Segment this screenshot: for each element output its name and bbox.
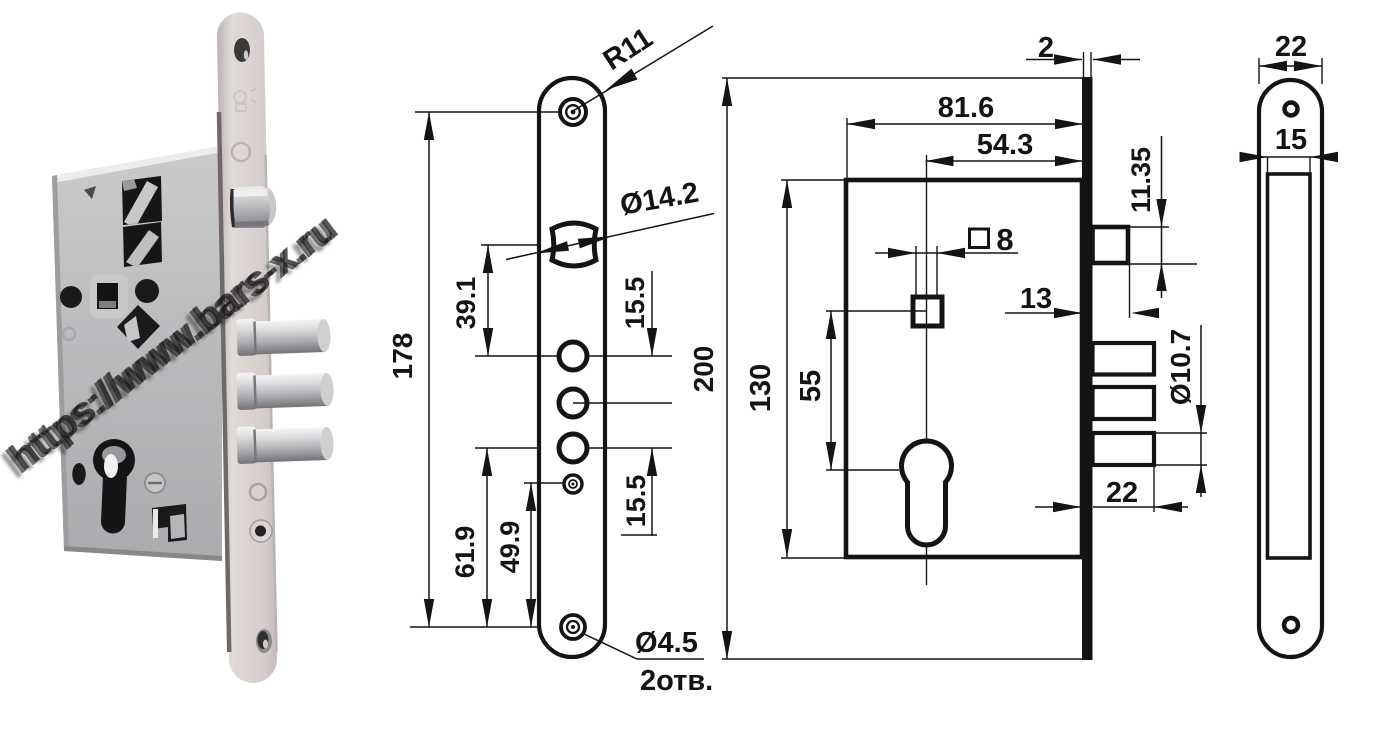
svg-text:130: 130 <box>745 364 777 412</box>
svg-text:11.35: 11.35 <box>1126 147 1156 213</box>
faceplate edge (solid bar) <box>1082 77 1093 660</box>
small screw hole <box>564 475 582 493</box>
euro keyhole of photo <box>93 439 135 481</box>
bolt hole circle 1 <box>559 342 587 370</box>
inner slot <box>1268 174 1311 558</box>
lock body top edge highlight <box>52 146 222 183</box>
dimension 39.1 <box>487 245 489 356</box>
lock body left edge <box>52 175 69 551</box>
faceplate (photo, tilted strip) <box>217 12 277 683</box>
bottom screw hole <box>561 615 585 639</box>
lock body front face <box>52 146 222 561</box>
svg-text:61.9: 61.9 <box>450 526 480 579</box>
dimension 49.9 <box>530 483 532 627</box>
svg-text:15: 15 <box>1275 124 1307 156</box>
faceplate outline (front view) <box>539 78 605 657</box>
faceplate left dark edge <box>219 112 229 652</box>
square follower hole 8mm <box>913 297 942 326</box>
diamond cutout <box>117 305 160 349</box>
top hole <box>1285 103 1298 116</box>
svg-text:13: 13 <box>1020 283 1052 315</box>
follower boss <box>90 274 128 318</box>
faint hole upper plate <box>232 143 250 161</box>
svg-text:39.1: 39.1 <box>451 277 481 330</box>
latch bolt (photo) <box>230 185 276 229</box>
svg-text:8: 8 <box>996 222 1013 257</box>
dimension 15.5 lower <box>651 448 653 536</box>
deadbolt 3 <box>1093 433 1155 465</box>
dimension D10.7 (deadbolt diameter) <box>1200 325 1202 497</box>
faceplate bottom screw hole (photo) <box>256 629 272 653</box>
rivet hole right <box>135 279 159 303</box>
deadbolt 2 (photo) <box>236 370 334 410</box>
svg-text:Ø4.5: Ø4.5 <box>635 627 698 659</box>
extension line circle2 <box>573 402 672 404</box>
svg-text:22: 22 <box>1275 31 1307 63</box>
svg-text:15.5: 15.5 <box>621 475 651 528</box>
svg-text:55: 55 <box>795 370 827 402</box>
dimension 11.35 (latch height) <box>1161 136 1163 298</box>
lock case outline <box>846 180 1082 557</box>
deadbolt 1 (photo) <box>236 316 331 356</box>
faceplate right edge shade <box>266 155 277 652</box>
svg-text:22: 22 <box>1106 477 1138 509</box>
dimension 200 <box>726 78 728 659</box>
dimension line for square 8 <box>875 252 1018 254</box>
dimension 130 <box>786 180 788 557</box>
svg-text:2отв.: 2отв. <box>640 665 713 697</box>
small notch on body <box>84 186 96 199</box>
metal lever in lower window <box>126 230 159 268</box>
faint hole mid plate <box>250 484 266 500</box>
faceplate top screw hole (photo) <box>234 38 250 62</box>
dark dot left of keyhole <box>72 463 85 485</box>
svg-text:Ø10.7: Ø10.7 <box>1165 329 1196 405</box>
follower square hole <box>97 283 118 309</box>
deadbolt 3 (photo) <box>236 424 334 464</box>
deadbolt 1 <box>1093 343 1155 375</box>
extension line circle3 <box>589 447 672 449</box>
lower-right black cutout <box>152 504 187 542</box>
euro cylinder hole <box>901 441 951 545</box>
deadbolt 2 <box>1093 387 1155 419</box>
small hole <box>63 328 75 340</box>
lock body bottom edge shadow <box>64 546 222 561</box>
svg-text:49.9: 49.9 <box>495 521 525 574</box>
svg-text:178: 178 <box>387 333 418 380</box>
bolt hole circle 3 <box>559 434 587 462</box>
dimension 178 <box>428 112 430 627</box>
svg-text:81.6: 81.6 <box>938 92 994 124</box>
leader D4.5 2 holes <box>584 634 637 659</box>
svg-text:200: 200 <box>688 346 719 393</box>
svg-text:15.5: 15.5 <box>620 277 650 330</box>
dimension 55 <box>830 311 832 470</box>
screw right of keyhole <box>145 473 165 493</box>
stamped logo <box>234 89 256 111</box>
dimension 61.9 <box>486 448 488 627</box>
dimension 15.5 upper <box>651 271 653 356</box>
back plate outline <box>1259 80 1322 657</box>
vertical centerline <box>926 155 928 585</box>
follower hole (barrel, D14.2) <box>552 223 596 266</box>
leader R11 <box>573 26 713 111</box>
metal lever in upper window <box>122 179 158 228</box>
bolt hole circle 2 <box>559 389 587 417</box>
countersunk screw hole <box>250 520 272 542</box>
rivet hole left <box>60 286 82 308</box>
bottom hole <box>1284 618 1298 632</box>
label square 8 <box>970 229 989 248</box>
top screw hole <box>560 99 586 125</box>
leader D14.2 <box>506 214 714 260</box>
svg-text:54.3: 54.3 <box>977 129 1033 161</box>
latch bolt (side view) <box>1093 227 1129 263</box>
